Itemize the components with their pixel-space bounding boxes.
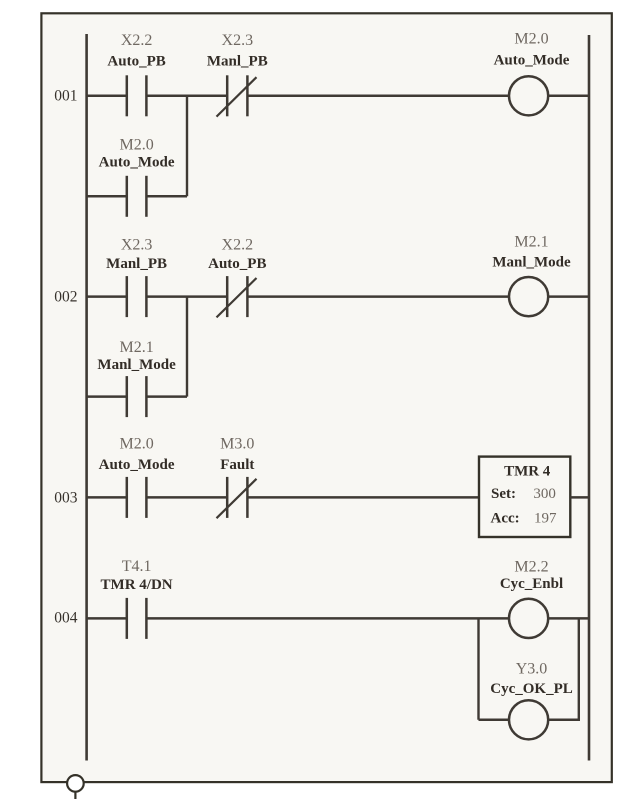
rung number 002: [54, 288, 77, 305]
svg-text:Auto_Mode: Auto_Mode: [99, 457, 175, 473]
contact T4.1 TMR 4/DN (NO): [127, 598, 147, 639]
wire rung1: left rail to contact X2.2: [87, 95, 127, 98]
wire rung2: left rail to contact X2.3: [87, 295, 127, 298]
wire rung2: X2.2 to coil M2.1: [247, 295, 509, 298]
svg-text:Auto_Mode: Auto_Mode: [99, 155, 175, 171]
contact M2.0 Auto_Mode (NO): [127, 477, 147, 518]
svg-text:X2.2: X2.2: [121, 32, 153, 49]
rung number 001: [54, 87, 77, 104]
svg-text:Auto_PB: Auto_PB: [208, 256, 266, 272]
label T4.1 TMR 4/DN: [101, 558, 173, 593]
contact M2.0 Auto_Mode (NO, seal-in): [127, 176, 147, 217]
label M2.2 Cyc_Enbl coil: [500, 558, 563, 592]
svg-text:T4.1: T4.1: [122, 558, 152, 575]
wire rung2: coil M2.1 to right rail: [548, 295, 589, 298]
label X2.3 Manl_PB: [207, 32, 268, 70]
svg-text:X2.2: X2.2: [222, 237, 254, 254]
svg-text:197: 197: [534, 510, 557, 526]
bottom terminal node circle: [67, 775, 84, 799]
wire branch4: left vertical to coil Y3.0: [479, 719, 510, 722]
svg-text:Cyc_OK_PL: Cyc_OK_PL: [490, 681, 573, 697]
label Y3.0 Cyc_OK_PL coil: [490, 661, 573, 697]
svg-text:Cyc_Enbl: Cyc_Enbl: [500, 576, 563, 592]
label X2.2 Auto_PB rung2: [208, 237, 266, 273]
svg-text:Manl_Mode: Manl_Mode: [97, 357, 176, 373]
svg-text:TMR 4/DN: TMR 4/DN: [101, 577, 173, 593]
svg-text:M2.2: M2.2: [514, 558, 548, 575]
wire rung3: M3.0 to timer TMR 4: [247, 496, 479, 499]
contact M3.0 Fault (NC): [217, 477, 257, 518]
rung number 004: [54, 610, 78, 627]
wire rung4: coil M2.2 to right rail: [548, 617, 589, 620]
svg-text:002: 002: [54, 288, 77, 305]
wire rung2: X2.3 to X2.2: [146, 295, 227, 298]
label M3.0 Fault: [220, 436, 254, 473]
label M2.0 Auto_Mode rung3: [99, 436, 175, 473]
contact X2.2 Auto_PB (NC): [217, 276, 257, 317]
coil M2.0 Auto_Mode: [509, 76, 548, 115]
svg-text:Auto_Mode: Auto_Mode: [494, 53, 570, 69]
wire rung4: left rail to contact T4.1: [87, 617, 127, 620]
svg-text:Acc:: Acc:: [491, 510, 520, 526]
wire rung1: X2.3 to coil M2.0: [247, 95, 509, 98]
svg-text:300: 300: [533, 486, 556, 502]
wire rung4: T4.1 to coil M2.2: [146, 617, 509, 620]
label X2.2 Auto_PB: [107, 32, 165, 70]
svg-text:M2.1: M2.1: [514, 234, 548, 251]
svg-text:M2.0: M2.0: [514, 31, 548, 48]
wire rung4 output branch right vertical: [578, 618, 580, 721]
svg-text:TMR 4: TMR 4: [504, 463, 551, 479]
contact X2.3 Manl_PB (NC): [217, 75, 257, 116]
svg-text:001: 001: [54, 87, 77, 104]
svg-text:Manl_Mode: Manl_Mode: [492, 255, 571, 271]
svg-text:004: 004: [54, 610, 78, 627]
svg-text:M2.0: M2.0: [119, 436, 153, 453]
svg-text:Set:: Set:: [491, 486, 516, 502]
wire rung1: coil M2.0 to right rail: [548, 95, 589, 98]
svg-text:M2.1: M2.1: [119, 339, 153, 356]
contact X2.3 Manl_PB (NO): [127, 276, 147, 317]
wire branch1: contact M2.0 to junction: [146, 195, 187, 198]
svg-text:X2.3: X2.3: [222, 32, 254, 49]
wire branch2: left rail to contact M2.1: [87, 395, 127, 398]
wire branch1 vertical junction: [186, 96, 188, 197]
left power rail: [85, 34, 88, 761]
svg-text:M2.0: M2.0: [119, 137, 153, 154]
wire branch4: coil Y3.0 to right vertical: [548, 719, 579, 722]
svg-text:Manl_PB: Manl_PB: [106, 256, 167, 272]
wire branch2: contact M2.1 to junction: [146, 395, 187, 398]
svg-text:Manl_PB: Manl_PB: [207, 54, 268, 70]
svg-text:003: 003: [54, 489, 78, 506]
coil M2.2 Cyc_Enbl: [509, 599, 548, 638]
contact X2.2 Auto_PB (NO): [127, 75, 147, 116]
wire rung3: M2.0 to M3.0: [146, 496, 227, 499]
svg-text:Auto_PB: Auto_PB: [107, 54, 165, 70]
right power rail: [588, 35, 591, 761]
label M2.0 Auto_Mode contact: [99, 137, 175, 171]
svg-text:X2.3: X2.3: [121, 237, 153, 254]
svg-text:Y3.0: Y3.0: [516, 661, 548, 678]
rung number 003: [54, 489, 78, 506]
label M2.1 Manl_Mode contact: [97, 339, 176, 373]
label M2.1 Manl_Mode coil: [492, 234, 571, 271]
svg-text:M3.0: M3.0: [220, 436, 254, 453]
coil Y3.0 Cyc_OK_PL: [509, 700, 548, 739]
wire rung3: left rail to contact M2.0: [87, 496, 127, 499]
wire branch1: left rail to contact M2.0: [87, 195, 127, 198]
label M2.0 Auto_Mode coil: [494, 31, 570, 69]
contact M2.1 Manl_Mode (NO, seal-in): [127, 376, 147, 417]
coil M2.1 Manl_Mode: [509, 277, 548, 316]
wire branch2 vertical junction: [186, 297, 188, 397]
svg-text:Fault: Fault: [220, 457, 254, 473]
wire rung3: timer TMR 4 to right rail: [570, 496, 589, 499]
wire rung1: X2.2 to X2.3: [146, 95, 227, 98]
label X2.3 Manl_PB rung2: [106, 237, 167, 273]
wire rung4 output branch left vertical: [477, 618, 479, 719]
timer TMR 4 function block: [479, 457, 570, 537]
